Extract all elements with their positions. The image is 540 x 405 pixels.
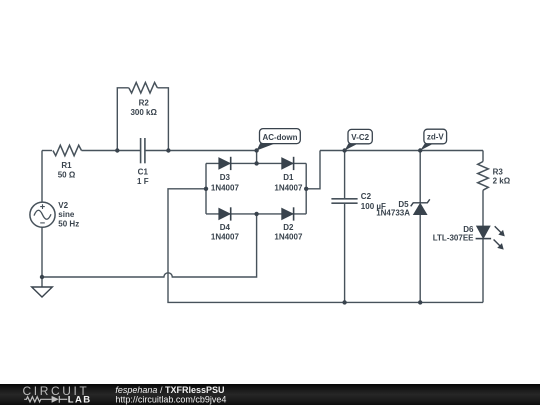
junction bridge bottom mid <box>254 212 258 216</box>
wire C1 to node AC-down <box>146 150 257 152</box>
svg-text:V2: V2 <box>58 201 68 210</box>
svg-text:D1: D1 <box>283 173 294 182</box>
svg-text:1N4007: 1N4007 <box>274 184 303 193</box>
junction bridge top mid <box>254 161 258 165</box>
wire source column <box>41 151 43 203</box>
voltage source V2 <box>30 202 55 227</box>
wire R1 to C1 <box>82 150 141 152</box>
wire right top rail <box>320 150 483 152</box>
wire bridge right edge <box>305 163 307 214</box>
junction ground node <box>40 275 44 279</box>
wire bridge top rail <box>206 162 306 164</box>
wire D5 column bottom <box>419 215 421 303</box>
junction D5 bottom <box>418 300 422 304</box>
resistor R3 <box>478 162 489 191</box>
svg-text:AC-down: AC-down <box>262 133 297 142</box>
flag zd-V <box>420 129 446 150</box>
LED D6 <box>476 226 505 249</box>
wire bridge bottom rail <box>206 213 306 215</box>
svg-text:R1: R1 <box>61 161 72 170</box>
junction at AC-down node <box>254 148 258 152</box>
capacitor C2 <box>331 199 357 203</box>
wire C2 column bottom <box>344 203 346 302</box>
junction bridge left mid <box>204 187 208 191</box>
svg-text:LTL-307EE: LTL-307EE <box>433 234 474 243</box>
wire R3 column top <box>482 151 484 162</box>
diode D3 <box>219 157 231 170</box>
svg-text:1N4007: 1N4007 <box>274 232 303 241</box>
svg-text:D4: D4 <box>220 223 231 232</box>
wire bridge left edge <box>205 163 207 214</box>
svg-text:D3: D3 <box>220 173 231 182</box>
svg-text:sine: sine <box>58 210 75 219</box>
wire source to ground rail <box>41 227 43 277</box>
svg-text:zd-V: zd-V <box>427 133 445 142</box>
ground <box>32 277 53 297</box>
junction bridge right mid <box>304 187 308 191</box>
svg-text:fespehana / TXFRlessPSU: fespehana / TXFRlessPSU <box>115 385 224 395</box>
svg-text:C1: C1 <box>138 167 149 176</box>
wire AC-down node to bridge top <box>256 151 258 164</box>
resistor R2 <box>129 83 158 94</box>
diode D2 <box>282 207 294 220</box>
svg-text:D2: D2 <box>283 223 294 232</box>
flag V-C2 <box>345 129 373 150</box>
diode D1 <box>282 157 294 170</box>
wire right leg of R2 loop <box>157 88 168 151</box>
capacitor C1 <box>141 138 145 163</box>
wire top-left rail segment source to R1 <box>42 150 52 152</box>
junction at R2 left leg <box>115 148 119 152</box>
junction C2 bottom <box>342 300 346 304</box>
svg-text:1N4007: 1N4007 <box>211 184 240 193</box>
wire C2 column top <box>344 151 346 199</box>
svg-text:1N4733A: 1N4733A <box>376 208 410 217</box>
svg-text:R2: R2 <box>139 99 150 108</box>
junction at R2 right leg <box>166 148 170 152</box>
wire bridge left mid to bottom rail <box>168 189 483 303</box>
svg-text:1 F: 1 F <box>137 177 149 186</box>
svg-text:C2: C2 <box>361 192 372 201</box>
junction V-C2 node <box>342 148 346 152</box>
svg-text:V-C2: V-C2 <box>351 133 369 142</box>
resistor R1 <box>53 145 82 156</box>
svg-text:2 kΩ: 2 kΩ <box>493 177 511 186</box>
footer logo resistor-diode-LAB <box>24 396 67 403</box>
wire left leg of R2 loop <box>117 88 129 151</box>
footer bar <box>0 384 540 405</box>
wire ground rail with hop over vertical wire <box>42 214 257 277</box>
svg-text:300 kΩ: 300 kΩ <box>130 108 157 117</box>
svg-text:1N4007: 1N4007 <box>211 232 240 241</box>
svg-text:LAB: LAB <box>68 395 92 405</box>
flag AC-down <box>257 129 301 151</box>
svg-text:R3: R3 <box>493 167 504 176</box>
junction zd-V node <box>418 148 422 152</box>
wire bridge right mid up to right rail <box>306 151 320 189</box>
zener diode D5 <box>411 199 430 214</box>
svg-text:http://circuitlab.com/cb9jve4: http://circuitlab.com/cb9jve4 <box>115 395 226 405</box>
wire R3 to D6 <box>482 190 484 226</box>
svg-text:50 Hz: 50 Hz <box>58 220 79 229</box>
diode D4 <box>219 207 231 220</box>
svg-text:50 Ω: 50 Ω <box>58 170 76 179</box>
wire D5 column top <box>419 151 421 203</box>
wire D6 to bottom rail <box>482 239 484 303</box>
